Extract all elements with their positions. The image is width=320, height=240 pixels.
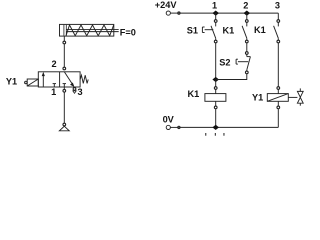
node Y1 coil top (277, 87, 280, 90)
solenoid coil Y1 (267, 94, 288, 102)
0V terminal (166, 125, 170, 129)
wire 0V rail (180, 126, 278, 128)
valve left box blocked port 3 (53, 84, 55, 87)
wire cylinder port to valve port 2 (63, 36, 65, 67)
wire S1 to junction (215, 43, 217, 80)
svg-text:F=0: F=0 (120, 28, 136, 38)
node cylinder port (63, 41, 66, 44)
wire Y1 coil to valve symbol (288, 96, 297, 98)
wire col2 to K1 contact (246, 13, 248, 20)
valve right box blocked port 1 (63, 84, 65, 87)
wire K1 contact to S2 (246, 43, 248, 52)
wire col1 to S1 (215, 13, 217, 20)
svg-text:+24V: +24V (155, 0, 178, 10)
node K1 contact bottom (245, 40, 248, 43)
svg-text:1: 1 (51, 87, 56, 97)
compressed air source (59, 126, 69, 131)
svg-text:2: 2 (51, 59, 56, 69)
valve V1 body (3/2 way) (38, 72, 80, 87)
node source connection (63, 123, 66, 126)
svg-text:K1: K1 (187, 89, 199, 99)
cylinder return spring (66, 25, 114, 36)
svg-text:S1: S1 (187, 25, 198, 35)
svg-text:2: 2 (243, 0, 248, 10)
node S1 top (214, 20, 217, 23)
node S2 bottom (245, 71, 248, 74)
svg-text:Y1: Y1 (252, 93, 263, 103)
node K1 coil top (214, 87, 217, 90)
node S2 top (245, 52, 248, 55)
node valve port 1 (63, 89, 66, 92)
exhaust at port 3 (73, 91, 76, 93)
svg-text:3: 3 (78, 87, 83, 97)
valve return spring (80, 75, 88, 83)
cylinder piston (63, 25, 65, 36)
switch S1 (NO pushbutton) (215, 22, 217, 26)
valve right box flow path 2->3 (64, 72, 73, 86)
wire K1 coil to 0V rail (215, 109, 217, 128)
node junction 0V col1 (212, 125, 219, 130)
node junction rail col2 (244, 11, 251, 16)
wire valve port 1 to air source (63, 87, 65, 123)
node valve port 3 (73, 88, 76, 91)
svg-text:S2: S2 (219, 57, 230, 67)
node Y1 coil bottom (277, 106, 280, 109)
cylinder A1 body (60, 24, 114, 36)
node junction rail col1 (212, 11, 219, 16)
wire col3 to K1 contact (277, 13, 279, 20)
wire Y1 coil to 0V rail (277, 109, 279, 128)
contact K1 col2 (NO) (246, 22, 248, 26)
relay coil K1 (205, 94, 226, 102)
node S1 bottom (214, 40, 217, 43)
valve cross-reference symbol (299, 88, 301, 91)
wire +24V rail (180, 12, 278, 14)
svg-text:3: 3 (275, 0, 280, 10)
svg-text:1: 1 (212, 0, 217, 10)
cylinder piston rod (66, 29, 119, 31)
node valve port 2 (63, 67, 66, 70)
wire junction to K1 coil (215, 80, 217, 87)
svg-text:0V: 0V (163, 115, 175, 125)
svg-text:Y1: Y1 (6, 77, 17, 87)
node K1 contact top (245, 20, 248, 23)
node K1 col3 top (277, 20, 280, 23)
node K1 coil bottom (214, 106, 217, 109)
svg-text:K1: K1 (222, 25, 234, 35)
svg-text:K1: K1 (254, 25, 266, 35)
valve left box flow arrow 1->2 (42, 75, 44, 87)
node K1 col3 bottom (277, 40, 280, 43)
contact cross-reference ticks (205, 133, 206, 136)
node junction col1/col2 (212, 77, 219, 82)
contact K1 col3 (NO) (277, 22, 279, 26)
wire S2 to junction col1 (216, 74, 247, 80)
solenoid pilot of valve (27, 79, 38, 86)
switch S2 (NC pushbutton) (246, 54, 248, 56)
wire K1 col3 to Y1 coil (277, 43, 279, 87)
+24V supply terminal (166, 11, 170, 15)
